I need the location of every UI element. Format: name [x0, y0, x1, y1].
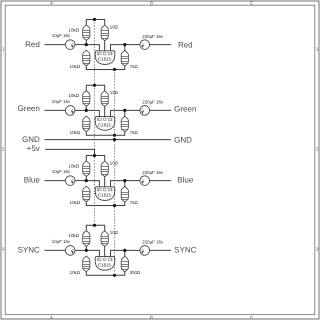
- wire emitter: [111, 181, 125, 187]
- svg-text:Green: Green: [18, 104, 40, 113]
- svg-text:10µF 16v: 10µF 16v: [52, 169, 71, 174]
- resistor 10k lower bias (Red): [83, 50, 90, 66]
- wire Red output: [150, 44, 171, 46]
- svg-text:A: A: [50, 315, 53, 320]
- capacitor 220uF output coupling (Blue): [140, 176, 150, 186]
- svg-text:75Ω: 75Ω: [130, 64, 139, 69]
- svg-text:SYNC: SYNC: [174, 246, 196, 255]
- node GND bus to GND line junction: [113, 138, 116, 141]
- svg-text:75Ω: 75Ω: [130, 200, 139, 205]
- resistor 10 ohm collector (Green): [101, 91, 108, 107]
- svg-text:75Ω: 75Ω: [130, 130, 139, 135]
- resistor 300Ω emitter (SYNC): [121, 256, 128, 272]
- node base junction: [85, 249, 88, 252]
- wire emitter node to output cap: [125, 180, 140, 182]
- wire GND line: [45, 139, 170, 141]
- wire emitter: [111, 110, 125, 116]
- svg-text:10kΩ: 10kΩ: [69, 93, 80, 98]
- wire GND bus (dashed): [114, 70, 116, 276]
- resistor 10k lower bias (Blue): [83, 186, 90, 202]
- resistor 10 ohm collector (Red): [101, 25, 108, 40]
- svg-text:10kΩ: 10kΩ: [70, 64, 81, 69]
- wire emitter node to output cap: [125, 249, 140, 251]
- svg-text:Red: Red: [178, 40, 193, 49]
- wire Blue input: [45, 180, 65, 182]
- wire Blue output: [150, 180, 171, 182]
- svg-text:300Ω: 300Ω: [130, 270, 141, 275]
- wire resistor lead to ground rail: [86, 271, 125, 275]
- node ground rail junction: [113, 68, 116, 71]
- resistor 75Ω emitter (Green): [121, 116, 128, 132]
- svg-text:10kΩ: 10kΩ: [70, 130, 81, 135]
- wire Green input: [45, 109, 65, 111]
- wire emitter resistor top lead: [124, 45, 126, 51]
- resistor 75Ω emitter (Blue): [121, 187, 128, 203]
- wire base node to transistor base: [86, 181, 99, 187]
- capacitor 220uF output coupling (Green): [140, 106, 150, 116]
- svg-text:A: A: [50, 1, 53, 6]
- node emitter junction: [123, 179, 126, 182]
- svg-text:10kΩ: 10kΩ: [70, 270, 81, 275]
- svg-text:220µF 16v: 220µF 16v: [142, 34, 164, 39]
- wire +5v top rail (Blue): [86, 156, 104, 161]
- wire collector lead: [104, 106, 106, 116]
- wire +5v top rail (SYNC): [86, 225, 104, 230]
- wire emitter: [111, 45, 125, 51]
- svg-text:Red: Red: [25, 40, 40, 49]
- capacitor 10uF input coupling (SYNC): [65, 246, 75, 256]
- node +5v rail junction: [93, 224, 96, 227]
- resistor 75Ω emitter (Red): [121, 51, 128, 67]
- node base junction: [85, 109, 88, 112]
- svg-text:Blue: Blue: [177, 176, 194, 185]
- wire resistor lead to ground rail: [86, 202, 125, 206]
- node base junction: [85, 43, 88, 46]
- resistor 10k upper bias (Blue): [83, 161, 90, 177]
- wire collector lead: [104, 40, 106, 50]
- wire base node to transistor base: [86, 45, 99, 51]
- svg-text:10kΩ: 10kΩ: [69, 27, 80, 32]
- capacitor 220uF output coupling (SYNC): [140, 246, 150, 256]
- wire SYNC input: [45, 249, 65, 251]
- node +5v rail junction: [93, 84, 96, 87]
- resistor 10k upper bias (SYNC): [83, 231, 90, 247]
- svg-text:10µF 16v: 10µF 16v: [52, 33, 71, 38]
- wire Red input: [45, 44, 65, 46]
- wire collector lead: [104, 246, 106, 256]
- svg-text:C1815: C1815: [98, 193, 111, 198]
- wire cap to base node: [75, 44, 86, 46]
- wire base node to transistor base: [86, 250, 99, 256]
- svg-text:GND: GND: [174, 135, 192, 144]
- transistor C1815 (Green): [95, 117, 115, 131]
- resistor 10k upper bias (Red): [83, 25, 90, 41]
- transistor C1815 (Red): [95, 51, 115, 65]
- svg-text:GND: GND: [22, 135, 40, 144]
- resistor 10k lower bias (Green): [83, 116, 90, 132]
- svg-text:10kΩ: 10kΩ: [69, 163, 80, 168]
- svg-text:10Ω: 10Ω: [110, 230, 119, 235]
- capacitor 10uF input coupling (Blue): [65, 176, 75, 186]
- node ground rail junction: [113, 204, 116, 207]
- wire resistor lead to ground rail: [86, 66, 125, 70]
- wire base node to transistor base: [86, 110, 99, 116]
- svg-text:B: B: [150, 1, 153, 6]
- node emitter junction: [123, 109, 126, 112]
- svg-text:10µF 16v: 10µF 16v: [52, 99, 71, 104]
- svg-text:C1815: C1815: [98, 122, 111, 127]
- resistor 10k upper bias (Green): [83, 91, 90, 107]
- wire emitter resistor top lead: [124, 110, 126, 116]
- wire emitter node to output cap: [125, 109, 140, 111]
- node ground rail junction: [113, 134, 116, 137]
- svg-text:220µF 16v: 220µF 16v: [142, 100, 164, 105]
- transistor C1815 (Blue): [95, 187, 115, 201]
- resistor 10k lower bias (SYNC): [83, 256, 90, 272]
- wire emitter: [111, 250, 125, 256]
- node ground rail junction: [113, 274, 116, 277]
- wire collector lead: [104, 176, 106, 186]
- svg-text:Green: Green: [174, 104, 196, 113]
- resistor 10 ohm collector (Blue): [101, 161, 108, 177]
- svg-text:C1815: C1815: [98, 57, 111, 62]
- svg-text:C1815: C1815: [98, 262, 111, 267]
- svg-text:220µF 16v: 220µF 16v: [142, 240, 164, 245]
- svg-text:10µF 16v: 10µF 16v: [52, 239, 71, 244]
- wire SYNC output: [150, 249, 171, 251]
- wire resistor lead: [85, 106, 87, 110]
- wire resistor lead: [85, 246, 87, 250]
- wire +5v top rail (Red): [86, 20, 104, 25]
- wire Green output: [150, 109, 171, 111]
- node +5v rail junction: [93, 154, 96, 157]
- wire cap to base node: [75, 180, 86, 182]
- node +5v rail junction: [93, 18, 96, 21]
- node base junction: [85, 179, 88, 182]
- wire +5v top rail (Green): [86, 85, 104, 90]
- wire emitter resistor top lead: [124, 250, 126, 256]
- svg-text:10kΩ: 10kΩ: [69, 233, 80, 238]
- svg-text:B: B: [150, 315, 153, 320]
- svg-text:220µF 16v: 220µF 16v: [142, 170, 164, 175]
- wire cap to base node: [75, 249, 86, 251]
- wire emitter resistor top lead: [124, 181, 126, 187]
- capacitor 10uF input coupling (Green): [65, 106, 75, 116]
- wire emitter node to output cap: [125, 44, 140, 46]
- wire resistor lead: [85, 40, 87, 44]
- resistor 10 ohm collector (SYNC): [101, 231, 108, 247]
- wire +5v line: [45, 149, 95, 155]
- svg-text:+5v: +5v: [27, 144, 40, 153]
- wire resistor lead: [85, 176, 87, 180]
- wire cap to base node: [75, 109, 86, 111]
- wire resistor lead to ground rail: [86, 131, 125, 135]
- svg-text:10Ω: 10Ω: [110, 24, 119, 29]
- node emitter junction: [123, 43, 126, 46]
- svg-text:Blue: Blue: [24, 175, 41, 184]
- wire +5v bus (dashed): [94, 20, 96, 226]
- capacitor 220uF output coupling (Red): [140, 40, 150, 50]
- node emitter junction: [123, 249, 126, 252]
- svg-text:10kΩ: 10kΩ: [70, 200, 81, 205]
- svg-text:SYNC: SYNC: [18, 245, 40, 254]
- transistor C1815 (SYNC): [95, 257, 115, 271]
- capacitor 10uF input coupling (Red): [65, 40, 75, 50]
